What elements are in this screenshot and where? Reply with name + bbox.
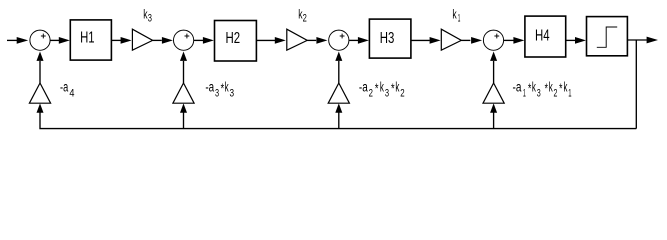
svg-text:k: k xyxy=(395,80,399,95)
output arrowhead xyxy=(647,37,658,44)
label k2 xyxy=(298,7,307,24)
arrowhead into amp A4 xyxy=(37,103,44,112)
summing junction S4 xyxy=(483,30,503,50)
svg-text:H1: H1 xyxy=(80,30,95,47)
svg-text:2: 2 xyxy=(554,88,558,100)
wire H2 to k2 amp xyxy=(256,39,275,41)
wire feedback bottom bus xyxy=(40,111,636,129)
wire S4 to H4 xyxy=(504,39,514,41)
block H4 xyxy=(525,16,566,57)
label k1 xyxy=(452,7,460,24)
arrowhead into amp A2 xyxy=(335,103,342,112)
svg-text:k: k xyxy=(564,80,568,95)
wire H4 to quantizer xyxy=(566,39,576,41)
label -a2*k3*k2 xyxy=(359,80,405,100)
svg-text:H2: H2 xyxy=(226,30,241,47)
wire A1 to summing junction xyxy=(493,61,495,83)
wire A3 to summing junction xyxy=(183,61,185,83)
svg-text:1: 1 xyxy=(568,88,571,100)
block H3 xyxy=(369,19,411,58)
svg-text:1: 1 xyxy=(523,88,526,100)
wire S2 to H2 xyxy=(194,39,204,41)
quantizer block Q (1-bit comparator) xyxy=(587,17,628,56)
wire A4 to summing junction xyxy=(39,61,41,83)
wire riser from bus to amp A1 xyxy=(493,111,495,129)
amplifier k3 xyxy=(132,29,152,50)
svg-text:k: k xyxy=(532,80,536,95)
svg-text:*: * xyxy=(375,81,379,96)
svg-text:-a: -a xyxy=(205,80,214,95)
feedback amplifier A4 xyxy=(29,83,50,103)
summing junction S1 xyxy=(30,30,50,50)
block H2 xyxy=(215,21,257,62)
block H1 xyxy=(70,20,111,60)
svg-text:k: k xyxy=(549,80,553,95)
label -a3*k3 xyxy=(205,80,234,100)
feedback amplifier A2 xyxy=(328,83,349,103)
wire k1 to S4 xyxy=(461,39,470,41)
wire quantizer to output xyxy=(627,39,646,41)
wire A2 to summing junction xyxy=(338,61,340,83)
svg-text:k: k xyxy=(452,7,457,21)
wire riser from bus to amp A3 xyxy=(183,111,185,129)
wire feedback tap down from output node xyxy=(635,40,637,129)
svg-text:3: 3 xyxy=(230,88,235,100)
svg-text:H3: H3 xyxy=(380,30,395,47)
svg-text:3: 3 xyxy=(215,88,219,100)
step symbol xyxy=(597,27,617,47)
svg-text:2: 2 xyxy=(369,88,373,100)
wire riser from bus to amp A2 xyxy=(338,111,340,129)
svg-text:k: k xyxy=(380,80,384,95)
svg-text:-a: -a xyxy=(359,80,368,95)
wire input xyxy=(7,39,18,41)
svg-text:k: k xyxy=(225,80,229,95)
amplifier k2 xyxy=(287,29,307,50)
wire H3 to k1 amp xyxy=(411,39,430,41)
svg-text:3: 3 xyxy=(385,88,389,100)
svg-text:-a: -a xyxy=(60,80,69,95)
label -a1*k3*k2*k1 xyxy=(513,80,572,100)
svg-text:4: 4 xyxy=(69,88,74,100)
wire k2 to S3 xyxy=(307,39,316,41)
summing junction S3 xyxy=(329,30,349,50)
label -a4 xyxy=(60,80,75,100)
svg-text:3: 3 xyxy=(148,12,152,24)
svg-text:1: 1 xyxy=(458,12,461,24)
summing junction S2 xyxy=(174,30,194,50)
label k3 xyxy=(143,7,152,24)
feedback amplifier A3 xyxy=(173,83,194,103)
svg-text:H4: H4 xyxy=(535,28,550,45)
arrowhead into amp A3 xyxy=(180,103,187,112)
wire S1 to H1 xyxy=(50,39,60,41)
wire k3 to S2 xyxy=(153,39,162,41)
svg-text:2: 2 xyxy=(303,12,307,24)
wire H1 to k3 amp xyxy=(111,39,121,41)
amplifier k1 xyxy=(441,29,461,50)
wire S3 to H3 xyxy=(349,39,359,41)
svg-text:3: 3 xyxy=(537,88,541,100)
svg-text:2: 2 xyxy=(400,88,404,100)
svg-text:*: * xyxy=(559,81,563,96)
svg-text:-a: -a xyxy=(513,80,522,95)
arrowhead into amp A1 xyxy=(490,103,497,112)
feedback amplifier A1 xyxy=(483,83,504,103)
input arrowhead xyxy=(17,37,29,44)
